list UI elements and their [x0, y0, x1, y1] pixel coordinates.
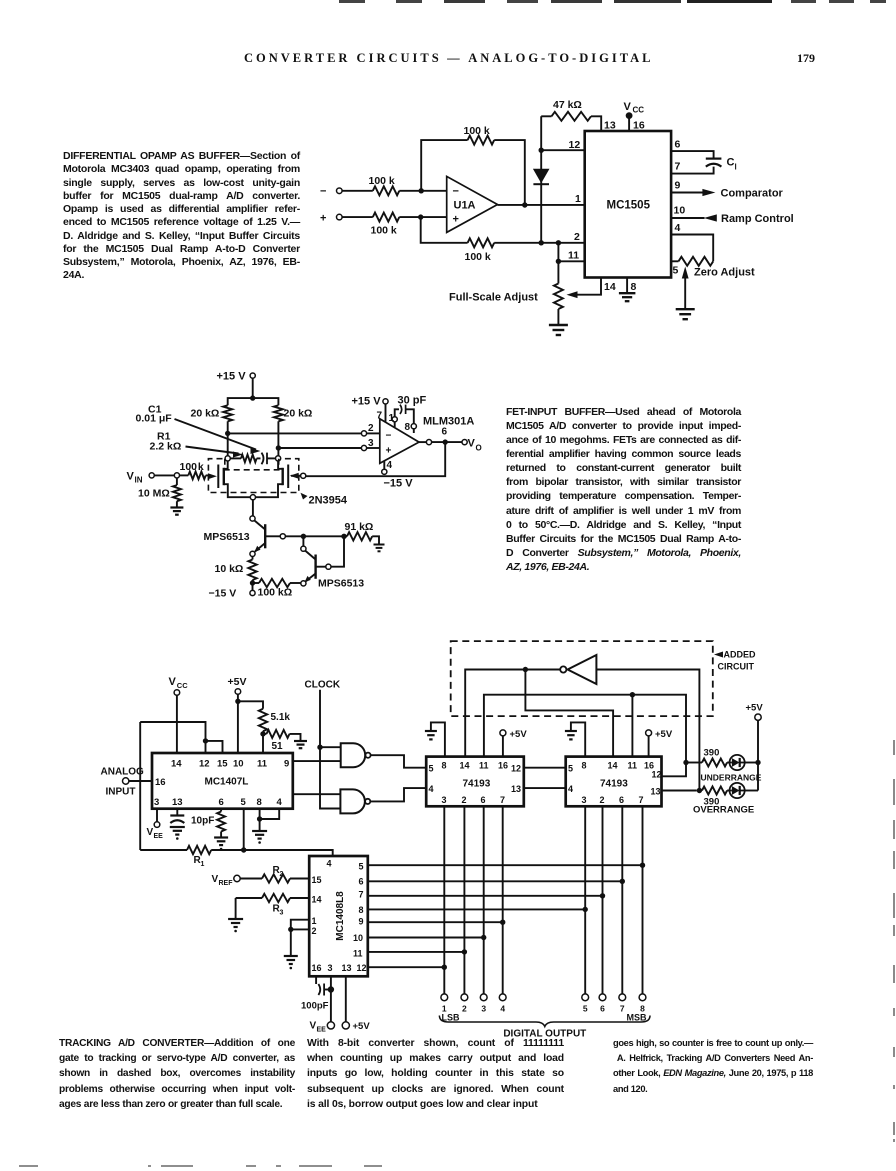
caption tracking A/D converter col 3: [613, 1036, 813, 1097]
junction 100pF pin3: [328, 986, 334, 992]
svg-text:EE: EE: [317, 1027, 327, 1034]
caption tracking A/D converter col 2: [307, 1036, 564, 1112]
label MPS6513 (right): [318, 578, 364, 590]
output VO: [462, 438, 482, 453]
wire plus to lower resistor: [421, 217, 468, 243]
resistor 20 k&#937; (right): [274, 405, 312, 448]
svg-text:5: 5: [429, 764, 434, 774]
svg-text:2: 2: [600, 795, 605, 805]
FET Q1b source lead: [256, 484, 283, 497]
svg-text:MC1407L: MC1407L: [205, 777, 249, 788]
junction diode to pin 2 line: [539, 240, 544, 245]
label pin 12: [569, 139, 581, 151]
wire pin 7 to NAND2: [293, 793, 340, 795]
label MSB: [627, 1013, 648, 1023]
LED UNDERRANGE: [727, 755, 758, 770]
Q2 emitter lead: [254, 543, 265, 552]
svg-text:V: V: [212, 874, 219, 885]
op-amp U1A: [447, 176, 498, 232]
label LSB: [442, 1013, 461, 1023]
node Q3 emitter: [301, 581, 306, 586]
junction diode to pin 12: [539, 148, 544, 153]
wire 47k left leg / diode branch: [540, 116, 542, 243]
wire pin3 node: [361, 445, 379, 450]
terminal output 3: [480, 994, 487, 1014]
wire pin 8 ground: [259, 809, 261, 819]
svg-text:4: 4: [568, 784, 573, 794]
label C1: [148, 404, 162, 416]
svg-text:8: 8: [582, 761, 587, 771]
labels 1408 pins 1 2: [312, 916, 317, 936]
junction bit 3: [481, 935, 486, 940]
svg-text:6: 6: [619, 795, 624, 805]
wire pin 4 (301): [382, 461, 387, 475]
wire 91k node to Q3 base: [331, 536, 344, 566]
junction R1-pin5: [241, 847, 246, 852]
resistor 390 (underrange): [686, 748, 727, 767]
power +15 V (top): [217, 371, 256, 399]
wire right drain leg: [277, 448, 279, 456]
svg-text:13: 13: [651, 787, 661, 797]
wire chip2 pin 12: [662, 763, 687, 777]
wire 1408 out y909: [368, 908, 585, 910]
wire drain to op-amp pin 3: [278, 447, 361, 449]
Q2 collector lead: [254, 520, 265, 529]
junction base-collector tie: [301, 534, 306, 539]
wire pin 4 bracket: [260, 809, 280, 819]
label DIGITAL OUTPUT: [503, 1029, 586, 1040]
svg-text:l: l: [735, 163, 737, 172]
Q2 base lead: [265, 535, 280, 537]
svg-text:V: V: [624, 101, 632, 113]
resistor R3: [236, 894, 310, 917]
caption tracking A/D converter col 1: [59, 1036, 295, 1112]
svg-text:3: 3: [442, 795, 447, 805]
svg-text:4: 4: [675, 222, 681, 234]
label pin 5: [673, 265, 679, 277]
inverter gate: [560, 655, 596, 684]
terminal output 4: [499, 994, 506, 1014]
junction underrange: [683, 760, 688, 765]
junction pins 1-2: [288, 927, 293, 932]
svg-text:15: 15: [217, 759, 228, 770]
FET Q1a drain lead: [224, 461, 228, 469]
junction feedback-output: [522, 202, 527, 207]
labels 1408 right pins: [353, 862, 367, 974]
resistor R1 2.2 k body: [230, 455, 256, 463]
svg-text:CLOCK: CLOCK: [305, 680, 341, 691]
node common source: [250, 495, 255, 500]
svg-text:EE: EE: [154, 833, 164, 840]
svg-text:10pF: 10pF: [191, 816, 214, 827]
node Q3 base circle: [326, 564, 331, 569]
ground pin 6: [214, 838, 228, 851]
resistor 100 k&#937; (bottom): [253, 579, 301, 599]
svg-text:−15 V: −15 V: [384, 478, 414, 490]
svg-text:+: +: [386, 446, 392, 457]
resistor 91 k&#937;: [344, 521, 379, 544]
svg-text:5: 5: [583, 1004, 588, 1014]
svg-text:12: 12: [357, 963, 367, 973]
caption differential opamp as buffer: [63, 150, 300, 283]
svg-text:+: +: [453, 214, 459, 226]
svg-text:9: 9: [675, 180, 681, 192]
svg-text:+5V: +5V: [655, 729, 673, 740]
svg-text:Full-Scale Adjust: Full-Scale Adjust: [449, 292, 538, 304]
power +5V (74193-1): [500, 729, 527, 757]
label R1: [157, 431, 171, 443]
wire pin 12: [541, 149, 585, 151]
wire plus input: [342, 216, 373, 218]
svg-text:5.1k: 5.1k: [271, 712, 291, 723]
junction load chip2: [630, 692, 635, 697]
resistor 100 k input: [180, 472, 217, 480]
label 2.2 k&#937;: [150, 441, 182, 453]
label pin 6: [675, 139, 681, 151]
wire pin 8 to ground: [626, 278, 628, 293]
wire 1408 out y922: [368, 921, 503, 923]
resistor 20 k&#937; (left): [191, 405, 233, 433]
label pin 13: [604, 120, 616, 132]
potentiometer Zero Adjust: [671, 257, 713, 266]
svg-text:2: 2: [312, 926, 317, 936]
wire R3 ground: [235, 898, 237, 919]
wire pin 11: [558, 243, 584, 261]
wire inverter input: [596, 670, 699, 791]
label pin 1 (301): [389, 413, 395, 424]
IC MC1408L8: [309, 856, 368, 976]
svg-text:2N3954: 2N3954: [309, 495, 348, 507]
svg-text:+5V: +5V: [746, 703, 764, 714]
resistor 47 k&#937;: [541, 99, 601, 131]
junction -15V node: [250, 580, 255, 585]
label UNDERRANGE: [701, 773, 762, 783]
label OVERRANGE: [693, 805, 754, 816]
junction on non-inverting input: [418, 214, 423, 219]
pointer 2N3954: [301, 493, 348, 507]
node Q2 collector: [250, 516, 255, 521]
svg-text:100 k: 100 k: [464, 125, 490, 137]
IC MC1407L: [152, 753, 293, 809]
power +5V (74193-2): [646, 729, 673, 757]
svg-text:5: 5: [241, 797, 247, 808]
wire pin12-15 link: [140, 722, 205, 741]
wire 1408 out y937: [368, 937, 484, 939]
svg-text:1: 1: [201, 861, 205, 868]
NAND gate 2: [340, 789, 370, 813]
svg-text:12: 12: [511, 764, 521, 774]
label Full-Scale Adjust: [449, 292, 538, 304]
svg-text:−: −: [320, 186, 326, 198]
svg-text:4: 4: [429, 784, 434, 794]
node Q3 collector: [301, 546, 306, 551]
label pin 14: [604, 281, 616, 293]
svg-text:12: 12: [569, 139, 581, 151]
svg-text:0.01 μF: 0.01 μF: [136, 413, 173, 425]
junction pin 11: [556, 259, 561, 264]
svg-text:10 kΩ: 10 kΩ: [215, 563, 244, 575]
label 100 k (input): [180, 461, 204, 473]
svg-text:MPS6513: MPS6513: [318, 578, 364, 590]
svg-text:−: −: [386, 431, 392, 442]
label 1408 pin 15: [312, 875, 322, 885]
svg-text:6: 6: [481, 795, 486, 805]
junction overrange: [697, 788, 702, 793]
resistor R2: [262, 865, 309, 883]
svg-text:7: 7: [675, 161, 681, 173]
svg-text:3: 3: [368, 438, 374, 449]
wire output bit 2: [463, 806, 465, 994]
wire pin 7 to CI: [671, 167, 714, 174]
svg-text:7: 7: [377, 411, 383, 422]
power +15 V (op-amp): [352, 396, 389, 422]
label 1408 pin 4: [327, 859, 332, 869]
ground above 74193-1: [425, 722, 445, 756]
terminal output 8: [639, 994, 646, 1014]
svg-text:3: 3: [582, 795, 587, 805]
junction left drain node: [225, 431, 230, 436]
svg-text:14: 14: [312, 895, 322, 905]
svg-text:8: 8: [257, 797, 262, 808]
svg-text:7: 7: [620, 1004, 625, 1014]
power +5V (1407): [228, 676, 247, 753]
FET Q1b drain lead: [278, 461, 283, 469]
svg-text:+15 V: +15 V: [352, 396, 382, 408]
wire clock to NAND1: [320, 746, 341, 748]
svg-text:INPUT: INPUT: [106, 787, 136, 798]
svg-text:U1A: U1A: [454, 200, 476, 212]
svg-text:13: 13: [342, 963, 352, 973]
wire output bit 6: [602, 806, 604, 994]
junction +15V rail: [250, 395, 255, 400]
ground pins 1-2: [284, 956, 298, 969]
svg-text:6: 6: [359, 877, 364, 887]
svg-text:DIGITAL OUTPUT: DIGITAL OUTPUT: [503, 1029, 586, 1040]
label 0.01 uF: [136, 413, 173, 425]
svg-text:11: 11: [628, 761, 638, 771]
power VCC: [624, 101, 645, 131]
ground pin 8: [619, 293, 636, 301]
wire pin2 node: [361, 431, 379, 436]
svg-text:MSB: MSB: [627, 1013, 648, 1023]
junction clock-NAND1: [317, 745, 322, 750]
node pin 8 (301): [411, 424, 416, 433]
node FET gate feedback: [301, 473, 306, 478]
wire 1408 out y881: [368, 880, 623, 882]
label pin 6 (301): [442, 427, 448, 438]
wire op-amp output pin 1: [498, 204, 585, 206]
svg-text:MC1505: MC1505: [607, 200, 651, 212]
label Ramp Control: [721, 213, 794, 225]
wire feedback to FET gate: [306, 442, 445, 476]
capacitor 10pF: [170, 809, 214, 827]
wire chip2 pin 11 drop: [631, 695, 633, 757]
wire output bit 1: [443, 806, 445, 994]
svg-text:100pF: 100pF: [301, 1001, 329, 1012]
labels 1407 top pins: [171, 759, 289, 770]
svg-text:5: 5: [568, 764, 573, 774]
pointer to C1: [175, 419, 261, 454]
svg-text:IN: IN: [135, 476, 143, 485]
label pin 8: [631, 281, 637, 293]
svg-text:14: 14: [608, 761, 618, 771]
node Q2 emitter: [250, 551, 255, 556]
svg-text:8: 8: [442, 761, 447, 771]
junction +5V branch: [235, 699, 240, 704]
svg-text:11: 11: [257, 759, 268, 770]
junction inverter out: [523, 667, 528, 672]
svg-text:15: 15: [312, 875, 322, 885]
wire top rail: [228, 398, 279, 405]
resistor 100 k (feedback): [464, 125, 495, 145]
dual FET 2N3954 dashed box: [208, 459, 298, 493]
wire pin 5 drop: [243, 809, 245, 850]
terminal output 5: [582, 994, 589, 1014]
junction pin2 corner: [556, 240, 561, 245]
FET Q1b channel: [282, 468, 284, 485]
dashed box ADDED CIRCUIT: [451, 641, 713, 716]
svg-text:+5V: +5V: [353, 1021, 371, 1032]
resistor 100 k (lower): [465, 238, 585, 263]
svg-text:14: 14: [604, 281, 616, 293]
label Comparator: [721, 188, 784, 200]
wire pin 6 to CI: [671, 151, 714, 158]
wire pin 16 stub: [315, 976, 317, 984]
svg-text:6: 6: [442, 427, 448, 438]
svg-text:10: 10: [674, 205, 686, 217]
svg-text:3: 3: [280, 910, 284, 917]
capacitor 30 pF: [395, 395, 427, 424]
label pin 10: [674, 205, 686, 217]
svg-text:MC1408L8: MC1408L8: [335, 891, 346, 941]
svg-text:2: 2: [368, 423, 374, 434]
svg-text:2: 2: [280, 871, 284, 878]
capacitor CI: [706, 157, 737, 172]
ground R3: [228, 919, 243, 932]
svg-text:100 k: 100 k: [371, 225, 397, 237]
svg-text:7: 7: [639, 795, 644, 805]
FET Q1a gate bar: [217, 465, 219, 489]
resistor 10 k&#937;: [215, 557, 257, 584]
ground 10pF: [170, 827, 185, 840]
svg-text:2.2 kΩ: 2.2 kΩ: [150, 441, 182, 453]
svg-text:9: 9: [359, 917, 364, 927]
caption FET-input buffer: [506, 405, 741, 574]
junction bit 1: [442, 965, 447, 970]
junction on inverting input: [419, 188, 424, 193]
svg-text:100 kΩ: 100 kΩ: [258, 587, 293, 599]
svg-text:2: 2: [574, 231, 580, 243]
svg-text:16: 16: [498, 761, 508, 771]
wire +5V to 5.1k: [238, 701, 263, 709]
svg-text:9: 9: [284, 759, 289, 770]
svg-text:1: 1: [389, 413, 395, 424]
scan artifact bottom dashes: [19, 1165, 38, 1167]
resistor R1: [187, 846, 211, 868]
labels 74193-1 pins: [429, 761, 522, 806]
power +5V (LED rail): [746, 703, 764, 791]
svg-text:3: 3: [328, 963, 333, 973]
page number 179: [797, 51, 815, 66]
wire pin 15 jumper: [206, 741, 223, 753]
svg-text:100 k: 100 k: [465, 251, 491, 263]
node right FET drain: [276, 456, 281, 461]
node plus input: [320, 213, 342, 225]
label MLM301A: [423, 416, 474, 428]
svg-text:7: 7: [500, 795, 505, 805]
svg-text:51: 51: [272, 741, 284, 752]
wire pin 13 drop: [345, 976, 347, 1021]
terminal output 6: [599, 994, 606, 1014]
svg-text:47 kΩ: 47 kΩ: [553, 99, 582, 111]
wire VIN: [154, 474, 174, 476]
wire left drain leg: [227, 433, 229, 455]
svg-text:Comparator: Comparator: [721, 188, 784, 200]
junction output VO: [443, 439, 448, 444]
transistor Q2 MPS6513 bar: [264, 524, 266, 548]
diode CR1: [533, 169, 550, 184]
svg-text:8: 8: [405, 422, 411, 433]
svg-text:3: 3: [154, 797, 159, 808]
svg-text:OVERRANGE: OVERRANGE: [693, 805, 754, 816]
label CLOCK: [305, 680, 341, 691]
svg-text:91 kΩ: 91 kΩ: [345, 521, 374, 533]
input VIN: [127, 471, 155, 485]
terminal output 7: [619, 994, 626, 1014]
wire base line: [285, 535, 341, 537]
svg-text:ADDED: ADDED: [724, 650, 757, 660]
wire drain to op-amp pin 2: [228, 432, 362, 434]
svg-text:14: 14: [171, 759, 182, 770]
resistor 100 k (non-inverting input): [371, 213, 447, 237]
scan artifact top dashes: [339, 0, 365, 3]
junction 5.1k-51: [260, 731, 265, 736]
label pin 7 (301): [377, 411, 383, 422]
svg-text:V: V: [468, 438, 476, 450]
FET Q1a channel: [223, 468, 225, 485]
capacitor 100pF: [301, 984, 329, 1012]
Q3 emitter lead: [305, 574, 316, 583]
label MPS6513 (left): [204, 531, 250, 543]
potentiometer Full-Scale Adjust: [554, 261, 563, 325]
svg-text:11: 11: [479, 761, 489, 771]
svg-text:8: 8: [359, 905, 364, 915]
svg-text:+: +: [320, 213, 326, 225]
svg-text:12: 12: [199, 759, 210, 770]
label ADDED CIRCUIT: [714, 650, 756, 672]
capacitor C1 body: [257, 453, 276, 465]
wire 13-4 link: [524, 787, 566, 789]
svg-text:11: 11: [568, 250, 579, 262]
label pin 1: [575, 193, 581, 205]
labels 74193-2 pins: [568, 761, 662, 806]
terminal output 1: [441, 994, 448, 1014]
svg-text:3: 3: [481, 1004, 486, 1014]
resistor 51: [263, 730, 301, 752]
junction bit 2: [462, 949, 467, 954]
wire pin 9 to NAND1: [293, 760, 340, 762]
ground pin 8 (1407): [252, 819, 267, 844]
wire NAND1 output: [371, 755, 427, 768]
svg-text:8: 8: [631, 281, 637, 293]
svg-text:2: 2: [462, 795, 467, 805]
svg-text:20 kΩ: 20 kΩ: [191, 408, 220, 420]
NAND gate 1: [341, 743, 371, 767]
junction bit 8: [640, 863, 645, 868]
svg-text:13: 13: [511, 784, 521, 794]
node minus input: [320, 186, 342, 198]
wire inv out to 74193-2 pin14: [525, 670, 613, 757]
